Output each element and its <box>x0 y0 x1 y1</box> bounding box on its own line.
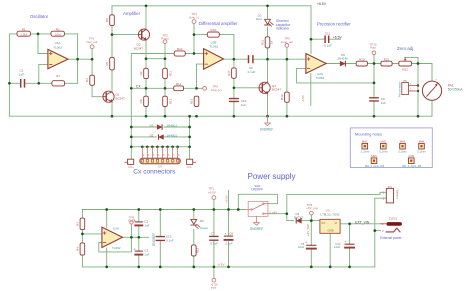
svg-text:0.1uF: 0.1uF <box>248 70 256 74</box>
svg-text:R4: R4 <box>75 247 79 251</box>
label TP1 <box>86 36 97 44</box>
wire U3 ground pin <box>329 233 331 267</box>
svg-text:R17: R17 <box>227 70 231 76</box>
mounting hole MH4 <box>419 143 425 149</box>
label TP7 <box>211 283 218 290</box>
label C3 <box>144 249 149 257</box>
test point TP2 <box>163 40 167 44</box>
resistor R17 <box>232 68 237 78</box>
svg-text:R21: R21 <box>384 57 390 61</box>
svg-text:VI: VI <box>335 221 338 225</box>
svg-text:P5: P5 <box>403 79 407 83</box>
mounting hole MH6 <box>409 158 415 164</box>
label TP3 <box>208 186 216 194</box>
svg-text:1.5M: 1.5M <box>20 33 27 37</box>
svg-text:+9V_SW: +9V_SW <box>306 224 310 236</box>
test point TP7 <box>212 278 216 282</box>
svg-text:R6: R6 <box>105 61 109 65</box>
label C13 <box>166 234 174 242</box>
label TP2 <box>161 33 168 40</box>
test point TP10 <box>372 51 376 55</box>
svg-text:+6.5V: +6.5V <box>317 2 327 6</box>
diode D4 <box>296 218 301 223</box>
svg-text:P4: P4 <box>388 185 392 189</box>
svg-text:MH2: MH2 <box>381 140 387 144</box>
svg-text:L78L10_TO92: L78L10_TO92 <box>320 213 339 217</box>
transistor Q2 <box>138 29 149 40</box>
junction dots top section <box>8 4 419 92</box>
regulator U3 <box>320 219 340 233</box>
svg-text:P-out: P-out <box>161 37 168 41</box>
potentiometer R22 <box>399 57 412 66</box>
wire U2B non-inverting input <box>197 64 204 88</box>
label TP6 <box>211 84 222 91</box>
wire U1B V+ pin <box>106 210 108 228</box>
svg-text:0.1uF: 0.1uF <box>166 239 174 243</box>
wire TP10-C8 column <box>373 55 375 117</box>
resistor R13 <box>174 51 185 56</box>
svg-text:MH3: MH3 <box>400 140 406 144</box>
label PA1 <box>448 84 463 92</box>
capacitor C6 <box>225 232 233 240</box>
wire power +9V rail <box>82 209 245 211</box>
transistor Q1 <box>103 91 114 102</box>
label D1 <box>150 123 178 127</box>
svg-text:-6.5V: -6.5V <box>301 95 305 102</box>
label SW1 ON/OFF <box>251 184 263 192</box>
svg-text:1uF: 1uF <box>19 73 24 77</box>
mounting holes box <box>350 128 432 168</box>
svg-text:Oscillator: Oscillator <box>30 14 49 19</box>
resistor R4b <box>80 243 85 255</box>
resistor R9 <box>144 68 149 78</box>
op-amp U2A <box>306 54 326 74</box>
mounting hole MH3 <box>400 143 406 149</box>
labels mounting holes values <box>360 150 425 168</box>
wire +9V_SW column <box>287 195 294 221</box>
svg-text:Zero adj.: Zero adj. <box>397 46 414 51</box>
resistor R2 <box>51 31 64 36</box>
capacitor C2 <box>134 218 143 225</box>
label U1B <box>112 227 121 251</box>
svg-text:+6.5V: +6.5V <box>225 195 229 203</box>
resistor R7 <box>52 81 65 86</box>
test point TP8 <box>310 211 314 215</box>
svg-text:Amplifier: Amplifier <box>123 11 141 16</box>
svg-text:1k: 1k <box>270 40 274 44</box>
connector CX pin stubs <box>142 147 177 159</box>
svg-text:BC547: BC547 <box>272 88 282 92</box>
resistor R11 <box>265 37 270 48</box>
svg-text:R1: R1 <box>22 27 26 31</box>
svg-text:Differential amplifier: Differential amplifier <box>199 21 238 26</box>
svg-text:10M: 10M <box>55 33 61 37</box>
op-amp U1B <box>102 227 123 247</box>
label Q2 <box>134 43 144 51</box>
svg-text:U1A: U1A <box>113 227 119 231</box>
resistor R19 <box>285 92 290 102</box>
labels Cx pin numbers <box>143 154 180 157</box>
ground GNDREF main rail <box>265 116 271 125</box>
label C8 <box>381 97 386 105</box>
resistor R8 <box>144 96 149 106</box>
resistor R21 <box>381 61 392 66</box>
svg-text:R20: R20 <box>359 57 365 61</box>
wire Q3 emitter <box>267 94 269 116</box>
svg-text:R3: R3 <box>75 222 79 226</box>
mounting hole MH5 <box>371 158 377 164</box>
svg-text:+: + <box>305 241 307 245</box>
wire R11-R12 column <box>164 59 166 116</box>
wire D3-R11 column <box>267 6 269 59</box>
connector P1 <box>125 159 134 164</box>
resistor R16 <box>192 245 197 256</box>
label TP10 <box>369 42 377 49</box>
svg-text:MH_3_2mm_M3: MH_3_2mm_M3 <box>365 164 385 168</box>
label TP4 <box>189 12 199 19</box>
wire D6-R16 column <box>193 210 195 267</box>
svg-text:MH_3_2mm_M3: MH_3_2mm_M3 <box>402 164 422 168</box>
svg-text:Mounting holes: Mounting holes <box>355 131 382 136</box>
label U2A <box>316 72 325 80</box>
diode D5 <box>340 61 345 66</box>
label D4 <box>294 212 303 220</box>
connector P5 <box>402 83 418 95</box>
label D5 <box>337 53 348 61</box>
wire TP1 column / R4 branch <box>92 49 103 97</box>
resistor R14 <box>174 86 184 91</box>
svg-text:BC547: BC547 <box>116 96 126 100</box>
wire Q3 collector <box>267 59 269 82</box>
svg-text:R10: R10 <box>211 28 217 32</box>
svg-text:TL062: TL062 <box>210 45 219 49</box>
wire meter bottom <box>431 100 433 116</box>
wire C11 branch <box>311 38 341 40</box>
resistor R15 <box>194 96 199 106</box>
svg-text:R9: R9 <box>139 71 143 75</box>
resistor R3 <box>80 218 85 230</box>
capacitor C10 <box>230 99 239 102</box>
svg-text:R15: R15 <box>189 98 193 104</box>
svg-text:10uF: 10uF <box>334 245 341 249</box>
connector CX body <box>140 158 180 163</box>
label C12 <box>334 242 341 249</box>
barrel jack J1 <box>381 222 402 233</box>
resistor R11b <box>163 68 168 78</box>
LED D6 <box>191 219 200 228</box>
meter PA1 <box>422 81 441 100</box>
svg-text:GNDREF: GNDREF <box>260 128 274 132</box>
mounting hole MH1 <box>362 143 368 149</box>
svg-text:Green: Green <box>200 226 209 230</box>
svg-text:TP7: TP7 <box>211 286 217 290</box>
label C11 <box>324 31 332 47</box>
svg-text:+: + <box>344 240 346 244</box>
svg-text:2 +9V: 2 +9V <box>269 210 277 214</box>
svg-text:+: + <box>134 248 136 252</box>
connector P2 <box>187 159 196 164</box>
wire P2 column <box>189 116 191 159</box>
label C1 <box>19 69 24 77</box>
wire U1B inverting input row <box>82 233 102 235</box>
rotated resistor refs <box>75 18 283 253</box>
wire Q2 emitter <box>145 40 147 59</box>
svg-text:0.1uF: 0.1uF <box>210 242 218 246</box>
capacitor C5 <box>305 241 316 249</box>
wire U2B output row <box>224 58 306 60</box>
wire R17 column / Q3 base <box>234 59 259 116</box>
svg-text:Amp (+): Amp (+) <box>211 88 222 92</box>
wire TP8 stub <box>310 215 312 221</box>
svg-text:R2: R2 <box>56 27 60 31</box>
svg-text:TL062: TL062 <box>316 76 325 80</box>
svg-text:External power: External power <box>380 236 402 240</box>
svg-text:EXT_VIN: EXT_VIN <box>355 221 370 225</box>
test point TP3 <box>212 196 216 200</box>
svg-text:R12: R12 <box>168 98 172 104</box>
svg-text:Amp_out: Amp_out <box>281 40 293 44</box>
label P5 pin numbers <box>410 78 438 91</box>
op-amp U1A <box>48 49 68 68</box>
ground GNDREF switch <box>254 216 260 225</box>
svg-text:Cx connectors: Cx connectors <box>133 169 176 176</box>
svg-text:ON/OFF: ON/OFF <box>251 188 263 192</box>
diode D1 <box>157 125 162 129</box>
svg-text:3_2mm: 3_2mm <box>417 150 426 154</box>
svg-text:R22: R22 <box>402 68 408 72</box>
label C6 <box>225 232 233 246</box>
label D3 <box>256 13 262 21</box>
svg-text:R7: R7 <box>56 74 60 78</box>
op-amp U2B <box>204 49 224 70</box>
resistor R12 <box>163 96 168 106</box>
wire battery plus row <box>287 192 387 194</box>
svg-text:CX+: CX+ <box>128 165 134 169</box>
label TP8 <box>306 203 318 210</box>
wire R13 row <box>131 53 203 55</box>
wire CX row <box>131 87 202 89</box>
resistor R4 <box>90 75 95 85</box>
wire TP2 column <box>164 44 166 59</box>
svg-text:+: + <box>225 232 227 236</box>
svg-text:+6.5V: +6.5V <box>208 190 216 194</box>
wire osc feedback column <box>77 34 79 83</box>
wire C5 column <box>310 221 312 267</box>
title Shorted capacitor indicator <box>276 19 291 31</box>
svg-text:CX: CX <box>136 85 141 89</box>
junction dots Cx connector area <box>130 126 191 148</box>
svg-text:-6.5V: -6.5V <box>217 263 224 267</box>
svg-text:R19: R19 <box>280 94 284 100</box>
labels mounting holes refs <box>362 140 425 159</box>
connector P4 battery <box>383 188 394 203</box>
svg-text:D2: D2 <box>150 133 154 137</box>
wire amplifier R5-R6 column <box>111 6 113 116</box>
resistor R6 <box>110 57 115 70</box>
svg-text:R11: R11 <box>260 39 264 45</box>
svg-text:CX-: CX- <box>187 165 192 169</box>
wire jack sleeve <box>375 230 381 232</box>
svg-text:R16: R16 <box>195 247 199 253</box>
capacitor C3 <box>134 248 143 255</box>
svg-text:MH1: MH1 <box>362 140 368 144</box>
svg-text:GND: GND <box>128 219 136 223</box>
label TP9 <box>128 215 136 222</box>
svg-text:BC547: BC547 <box>134 46 144 50</box>
capacitor C11 <box>325 36 329 42</box>
capacitor C9 <box>249 56 253 63</box>
wire TP4 column <box>193 24 195 54</box>
label C2 <box>144 219 149 227</box>
wire R22 wiper <box>405 57 418 63</box>
svg-text:indicator: indicator <box>276 27 290 31</box>
test point TP5 <box>285 44 289 48</box>
wire D2 row <box>131 136 189 138</box>
label D2 <box>150 133 178 137</box>
wire U1A output row <box>68 58 92 60</box>
svg-text:+9V_reg: +9V_reg <box>306 206 318 210</box>
mounting hole MH2 <box>381 143 387 149</box>
resistor R5 <box>110 15 115 26</box>
wire power -9V rail <box>82 266 374 268</box>
svg-text:3_2mm: 3_2mm <box>398 150 407 154</box>
svg-text:C7: C7 <box>211 232 215 236</box>
LED D3 <box>265 19 274 26</box>
svg-text:R14: R14 <box>176 82 182 86</box>
wire P5 column <box>417 64 419 117</box>
svg-text:Red: Red <box>256 17 262 21</box>
capacitor C8 <box>370 98 378 101</box>
svg-text:1uF: 1uF <box>144 253 149 257</box>
label TP5 <box>281 36 293 43</box>
wire rectifier output row <box>326 64 432 82</box>
wire D1 row <box>131 126 189 128</box>
wire switch pin2 row <box>268 213 287 215</box>
label C7 <box>210 232 218 246</box>
wire EXT_VIN row <box>340 223 380 225</box>
svg-text:1N4148: 1N4148 <box>337 57 348 61</box>
svg-text:Power supply: Power supply <box>248 172 296 181</box>
label D6 <box>200 219 209 230</box>
svg-text:R13: R13 <box>177 47 183 51</box>
wire C2-C3 column <box>138 210 140 267</box>
svg-text:Amp (-): Amp (-) <box>189 16 199 20</box>
capacitor C13 <box>156 237 164 241</box>
svg-text:C6: C6 <box>229 232 233 236</box>
wire U1B V- pin <box>106 248 108 267</box>
wire TP7 stub <box>213 267 215 278</box>
junction dots power section <box>81 208 376 268</box>
svg-text:+6.5V: +6.5V <box>333 36 343 40</box>
svg-text:Battery: Battery <box>395 190 399 200</box>
label Q1 <box>116 93 126 101</box>
wire top +6.5V rail <box>112 5 311 7</box>
capacitor C1 <box>21 80 25 87</box>
test point TP4 <box>192 20 196 24</box>
wire U1B feedback loop <box>99 237 132 252</box>
wire U2A V+ column <box>310 6 312 54</box>
svg-text:2.2uF: 2.2uF <box>225 242 233 246</box>
label U1A <box>53 41 62 49</box>
svg-text:CX: CX <box>158 164 162 168</box>
wire TP5-R19 column <box>286 47 288 116</box>
svg-text:R5: R5 <box>105 18 109 22</box>
svg-text:MH5: MH5 <box>371 154 377 158</box>
svg-text:10uF: 10uF <box>298 245 305 249</box>
wire U1A non-inverting input <box>39 64 49 83</box>
wire R1-R2 row <box>9 33 77 35</box>
svg-text:50=250uA: 50=250uA <box>448 88 463 92</box>
wire +6.5V stub / C6 column <box>228 190 230 267</box>
label C10 <box>241 99 247 107</box>
wire R10 feedback row <box>194 35 234 60</box>
wire D4 cathode to U3 <box>302 220 320 222</box>
wire U2A V- stub <box>310 73 312 105</box>
label Q3 <box>272 84 282 92</box>
svg-text:1N4001: 1N4001 <box>167 123 178 127</box>
svg-text:GNDREF: GNDREF <box>152 233 156 247</box>
svg-text:Vout: Vout <box>370 46 376 50</box>
label C5 <box>298 242 305 249</box>
wire C13 column <box>159 210 161 267</box>
svg-text:MH4: MH4 <box>419 140 425 144</box>
svg-text:MH6: MH6 <box>409 154 415 158</box>
svg-text:BAT42: BAT42 <box>294 216 303 220</box>
resistor R10 <box>207 32 219 37</box>
test point TP9 <box>130 221 133 224</box>
wire Q2 collector <box>145 6 147 29</box>
wire over-switch bypass <box>238 194 277 209</box>
wire U2A feedback loop <box>297 68 374 83</box>
svg-text:R11: R11 <box>168 71 172 77</box>
wire battery minus column <box>375 198 387 267</box>
svg-text:GNDREF: GNDREF <box>250 227 264 231</box>
svg-text:GND: GND <box>328 229 334 233</box>
wire TP3-C7 column <box>213 200 215 267</box>
wire R3-R4 column <box>81 210 83 267</box>
switch SW1 <box>246 201 268 216</box>
test point TP1 <box>90 45 94 49</box>
wire U1B output row <box>123 236 149 238</box>
resistor R20 <box>356 61 367 66</box>
svg-text:D6: D6 <box>200 219 204 223</box>
label P4 Battery <box>388 185 399 200</box>
capacitor C12 <box>344 240 354 248</box>
label U3 <box>320 208 339 216</box>
svg-text:TL062: TL062 <box>53 45 62 49</box>
wire TP9 stub <box>130 224 132 237</box>
svg-text:C11: C11 <box>325 31 331 35</box>
wire CX column <box>130 54 132 160</box>
test point TP6 <box>203 86 207 90</box>
resistor R1 <box>17 31 30 36</box>
wire R9-R8 column <box>145 59 147 116</box>
capacitor C7 <box>210 236 218 240</box>
label C9 <box>248 66 256 74</box>
svg-text:1uF: 1uF <box>241 103 246 107</box>
label U2B <box>210 40 219 48</box>
svg-text:0.1uF: 0.1uF <box>324 44 332 48</box>
svg-text:TL062: TL062 <box>112 246 121 250</box>
svg-text:D1: D1 <box>150 123 154 127</box>
svg-text:R8: R8 <box>139 99 143 103</box>
junction dots ground rail <box>111 115 420 118</box>
wire C1-R7 row <box>9 82 77 84</box>
wire emitter row <box>146 58 165 60</box>
wire U1A inverting input <box>38 34 48 54</box>
transistor Q3 <box>259 82 270 94</box>
label P5 M-connector <box>398 79 407 97</box>
